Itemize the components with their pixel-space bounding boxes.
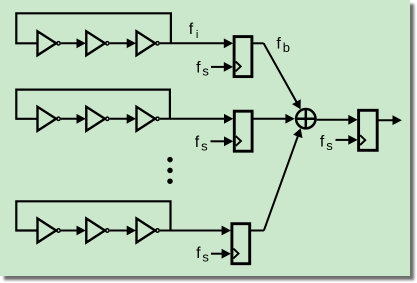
svg-text:i: i [196, 29, 198, 41]
svg-text:f: f [320, 133, 325, 150]
svg-text:f: f [195, 134, 200, 151]
svg-text:s: s [326, 138, 333, 153]
svg-text:s: s [202, 64, 209, 79]
svg-text:f: f [196, 59, 201, 76]
svg-text:s: s [202, 249, 209, 264]
svg-text:s: s [201, 138, 208, 153]
svg-text:b: b [283, 40, 290, 55]
svg-text:f: f [196, 245, 201, 262]
svg-text:f: f [276, 36, 281, 53]
svg-text:f: f [189, 21, 194, 38]
